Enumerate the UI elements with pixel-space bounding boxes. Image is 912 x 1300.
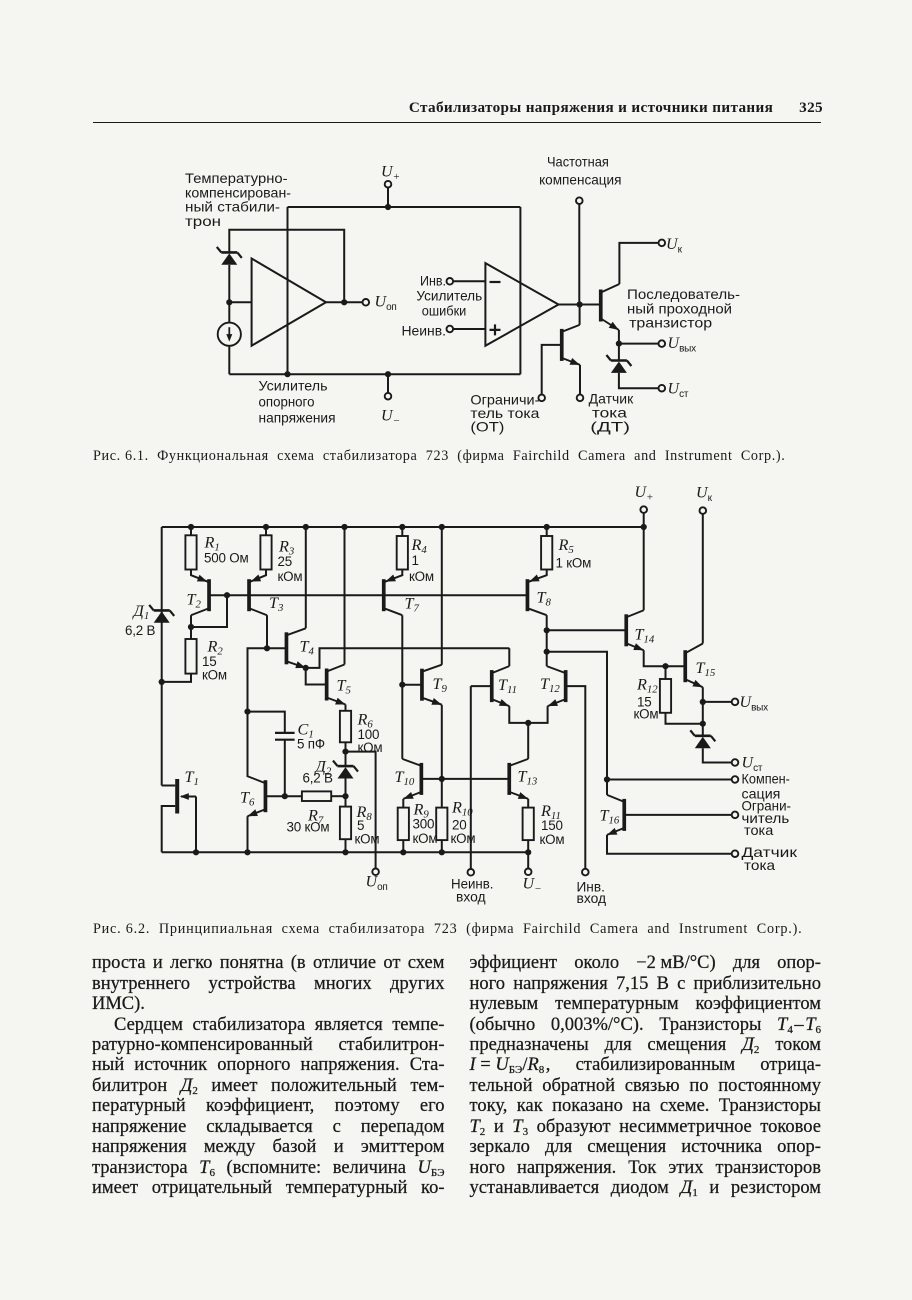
resistor R8 5 kOm: [340, 807, 351, 840]
svg-text:кОм: кОм: [202, 668, 227, 683]
wire zener anode to node A (fig 6.1): [228, 265, 230, 303]
wire node A to ref amp input (fig 6.1): [229, 301, 251, 303]
wire R4 top lead: [401, 527, 403, 536]
terminal Uop: [372, 869, 379, 876]
terminal Uk (fig 6.1): [659, 240, 666, 247]
svg-text:компенсация: компенсация: [539, 172, 621, 187]
resistor R11 150 kOm: [523, 808, 534, 841]
svg-text:T13: T13: [518, 768, 538, 788]
svg-text:кОм: кОм: [540, 832, 565, 847]
svg-text:Последователь-: Последователь-: [627, 287, 740, 302]
wire T16 base to current limit terminal: [624, 814, 731, 816]
wire zener feedback top run (fig 6.1): [229, 230, 344, 302]
node Uout (fig 6.2): [700, 699, 706, 705]
terminal inverting input: [582, 869, 589, 876]
wire node G to T9 base: [402, 684, 422, 686]
node K T8-coll/T14-base: [544, 627, 550, 633]
wire node C to T4 base: [267, 647, 287, 649]
wire OT base lead (fig 6.1): [542, 345, 562, 395]
svg-text:U+: U+: [635, 484, 654, 503]
svg-text:Частотная: Частотная: [547, 154, 609, 169]
wire R8 top lead: [345, 796, 347, 806]
wire Uop branch: [346, 752, 376, 869]
wire T15 collector to Uk: [702, 514, 704, 644]
wire T4 emitter to T11 collector run: [306, 648, 510, 668]
wire series emitter to Uout node (fig 6.1): [618, 330, 620, 344]
node R9 on rail: [400, 849, 406, 855]
capacitor C1 5pF: [275, 733, 295, 740]
wire Uout lead (fig 6.1): [619, 343, 659, 345]
svg-text:R5: R5: [558, 536, 575, 556]
transistor T15: [683, 644, 702, 688]
wire T11 emitter to node J: [509, 706, 528, 723]
wire source of T1 to bottom rail (fig 6.2): [162, 806, 176, 852]
wire C1 top to node C1-junction: [248, 712, 285, 733]
svg-text:30 кОм: 30 кОм: [287, 820, 330, 835]
wire box left edge (fig 6.1): [287, 207, 289, 374]
zener output reference (fig 6.1): [606, 355, 631, 373]
wire T10 emitter to R9: [402, 799, 404, 808]
transistor T6: [248, 776, 268, 816]
transistor T13: [507, 759, 528, 799]
wire node B to base bus: [191, 595, 227, 627]
svg-text:транзистор: транзистор: [629, 316, 712, 331]
wire noninv input (fig 6.1): [453, 328, 485, 330]
wire T12 emitter to node J: [528, 706, 547, 723]
svg-text:T4: T4: [300, 638, 315, 658]
resistor R3 25 kOm: [260, 535, 271, 569]
wire R12 bottom to node P: [666, 713, 703, 724]
node D1 anode / R2 return: [159, 679, 165, 685]
wire T11 collector up: [508, 648, 510, 666]
wire Uout lead: [703, 701, 732, 703]
node R1 top on rail: [188, 524, 194, 530]
plus input mark (fig 6.1): [490, 324, 501, 335]
wire U+ terminal lead (fig 6.1): [387, 188, 389, 207]
wire OT collector (fig 6.1): [579, 305, 581, 325]
node A zener/current-source/amp-input (fig 6.1): [226, 299, 232, 305]
wire T6 base to R7: [266, 795, 302, 797]
wire C1 bottom to node F: [284, 740, 286, 797]
wire zener to Ust (fig 6.1): [619, 373, 659, 388]
transistor T1 (JFET): [162, 779, 196, 814]
wire U- terminal lead (fig 6.1): [387, 374, 389, 393]
transistor T3: [247, 575, 267, 616]
svg-text:Неинв.: Неинв.: [402, 324, 447, 339]
wire compensation lead (fig 6.1): [578, 204, 580, 304]
transistor T16: [607, 795, 626, 835]
wire Uout node to zener (fig 6.1): [618, 344, 620, 361]
svg-text:T8: T8: [537, 589, 552, 609]
wire T3 collector down: [266, 615, 268, 648]
wire current source to bottom rail (fig 6.1): [228, 346, 230, 374]
wire T9 collector to rail: [441, 527, 443, 665]
wire R8 to rail: [345, 839, 347, 852]
terminal U- (fig 6.1): [385, 393, 392, 400]
wire R2 to left rail: [162, 674, 191, 682]
svg-text:T6: T6: [240, 789, 255, 809]
wire R9 to rail: [402, 840, 404, 852]
node B T2-collector/R2: [188, 624, 194, 630]
wire series collector to Uk (fig 6.1): [619, 243, 658, 284]
current source I (fig 6.1): [218, 323, 241, 346]
wire R6 to D2 node: [345, 742, 347, 751]
wire T8 collector down to T12 collector: [546, 615, 548, 666]
svg-text:U+: U+: [381, 164, 400, 183]
transistor T11: [490, 666, 509, 706]
wire base bus T10-T13: [421, 778, 509, 780]
svg-text:25: 25: [278, 554, 293, 569]
resistor R5 1 kOm: [541, 536, 552, 570]
wire D2 top lead: [345, 752, 347, 767]
wire R11 to rail end: [527, 840, 529, 852]
body text right column: [470, 953, 822, 1198]
wire R3 top lead: [265, 527, 267, 535]
transistor T9: [420, 665, 442, 705]
resistor R10 20 kOm: [436, 808, 447, 841]
node Uout (fig 6.1): [616, 341, 622, 347]
svg-text:6,2 В: 6,2 В: [303, 771, 334, 786]
svg-text:Uвых: Uвых: [740, 694, 769, 713]
svg-text:Uк: Uк: [666, 236, 683, 255]
node H T9-emitter/R10/base bus: [439, 776, 445, 782]
resistor R12 15 kOm: [660, 679, 671, 713]
svg-text:Д1: Д1: [132, 602, 150, 622]
wire T5 emitter to R6: [345, 705, 347, 711]
resistor R7 30 kOm: [302, 791, 331, 801]
node D R6/D2/Uop: [342, 749, 348, 755]
node G T7-collector/T9-base/T10-collector: [399, 682, 405, 688]
node R8 on rail: [342, 849, 348, 855]
wire T4 collector to rail: [305, 527, 307, 628]
transistor T7: [382, 575, 402, 616]
caption figure 6.2: [93, 921, 802, 938]
svg-text:кОм: кОм: [634, 707, 659, 722]
wire R3 to T3 emitter: [249, 570, 266, 583]
node P R12/D3: [700, 721, 706, 727]
svg-text:кОм: кОм: [413, 831, 438, 846]
node J T11/T12 emitters / T13 collector: [525, 720, 531, 726]
terminal DT current sense (fig 6.1): [577, 395, 584, 402]
wire T14 collector to U+: [643, 527, 645, 610]
terminal U+ (fig 6.2): [640, 506, 647, 513]
resistor R9 300 kOm: [398, 808, 409, 841]
node C1 top junction: [244, 709, 250, 715]
op-amp error amplifier U1 (fig 6.1): [485, 263, 558, 346]
svg-text:тока: тока: [744, 858, 776, 873]
svg-text:T1: T1: [185, 768, 199, 788]
wire T9 emitter down: [441, 705, 443, 779]
wire base bus T2-T3-T7-T8: [209, 594, 528, 596]
body text left column: [92, 953, 445, 1198]
wire R5 top lead: [546, 527, 548, 536]
node T4 collector on rail: [303, 524, 309, 530]
wire node C to T6 collector line: [248, 648, 268, 777]
node L T8-coll/compensation: [544, 649, 550, 655]
node T5 collector on rail: [341, 524, 347, 530]
svg-text:Усилитель: Усилитель: [259, 379, 328, 394]
svg-text:(ОТ): (ОТ): [470, 420, 504, 435]
wire left rail with D1 (fig 6.2): [161, 527, 163, 786]
terminal Ust (fig 6.1): [659, 385, 666, 392]
svg-text:Компен-: Компен-: [742, 772, 790, 787]
node base bus junction: [224, 592, 230, 598]
svg-text:вход: вход: [456, 890, 486, 905]
svg-text:ошибки: ошибки: [422, 304, 467, 319]
node T6 emitter on rail: [244, 849, 250, 855]
svg-text:Усилитель: Усилитель: [416, 289, 482, 304]
svg-text:Uоп: Uоп: [375, 294, 397, 313]
wire box right edge (fig 6.1): [519, 207, 521, 374]
svg-text:1: 1: [412, 553, 419, 568]
terminal OT current limit (fig 6.1): [538, 395, 545, 402]
svg-text:Температурно-: Температурно-: [185, 171, 288, 186]
svg-text:5 пФ: 5 пФ: [297, 737, 325, 752]
svg-text:U−: U−: [381, 408, 400, 427]
wire R1 top lead: [190, 527, 192, 535]
svg-text:тока: тока: [744, 823, 774, 838]
wire R7 to node E: [331, 795, 345, 797]
wire V+ top rail / box top edge (fig 6.1): [288, 206, 521, 208]
svg-text:напряжения: напряжения: [259, 411, 336, 426]
node T1 gate / V- rail: [193, 849, 199, 855]
svg-text:T14: T14: [635, 626, 655, 646]
wire inv input (fig 6.1): [453, 280, 485, 282]
wire V+ top rail (fig 6.2): [162, 526, 644, 528]
wire R10 to rail: [441, 840, 443, 852]
svg-text:150: 150: [541, 818, 563, 833]
node T4 emitter: [303, 665, 309, 671]
svg-text:Uст: Uст: [668, 381, 689, 400]
svg-text:T7: T7: [405, 595, 420, 615]
terminal current sense: [732, 850, 739, 857]
svg-text:300: 300: [413, 817, 435, 832]
wire T14 emitter to T15 base: [644, 650, 686, 666]
svg-text:кОм: кОм: [358, 740, 383, 755]
svg-text:R12: R12: [636, 676, 658, 696]
wire T1 drain: [162, 785, 176, 787]
terminal inverting input (fig 6.1): [447, 278, 454, 285]
zener D1 6.2V: [149, 605, 174, 623]
wire node K to T14 base: [547, 629, 627, 631]
terminal Uout (fig 6.1): [659, 340, 666, 347]
wire T1 gate to rail: [195, 797, 197, 853]
wire non-inverting input: [470, 686, 472, 869]
wire D3 to Ust: [703, 748, 732, 762]
wire compensation to terminal: [607, 779, 732, 781]
terminal frequency compensation (fig 6.1): [576, 197, 583, 204]
svg-text:кОм: кОм: [409, 569, 434, 584]
svg-text:T10: T10: [395, 768, 415, 788]
svg-text:компенсирован-: компенсирован-: [185, 185, 291, 200]
svg-text:Инв.: Инв.: [420, 273, 446, 288]
node ref amp output / feedback (fig 6.1): [341, 299, 347, 305]
transistor T10: [402, 759, 423, 799]
node U- on bottom rail (fig 6.1): [385, 371, 391, 377]
resistor R4 1 kOm: [397, 536, 408, 570]
node R10 on rail: [439, 849, 445, 855]
resistor R1 500 Om: [185, 535, 196, 569]
svg-text:ный стабили-: ный стабили-: [185, 200, 280, 215]
terminal Ust (fig 6.2): [732, 759, 739, 766]
wire R4 to T7 emitter: [384, 570, 403, 583]
transistor T14: [624, 610, 643, 650]
wire D3 top lead: [702, 724, 704, 736]
zener temp-compensated stabilitron (fig 6.1): [217, 247, 242, 265]
zener D3 output reference: [690, 730, 715, 748]
wire node A to current source (fig 6.1): [228, 302, 230, 322]
wire T2 collector to node B: [190, 615, 192, 627]
node C T3-collector/T4-base/T6-collector: [264, 645, 270, 651]
terminal non-inverting input (fig 6.1): [447, 326, 454, 333]
wire U- lead: [527, 852, 529, 868]
node T9 collector on rail: [439, 524, 445, 530]
terminal current limiter: [732, 812, 739, 819]
svg-text:кОм: кОм: [278, 569, 303, 584]
terminal Uout (fig 6.2): [732, 699, 739, 706]
wire T12 base to inverting input: [566, 686, 586, 869]
wire R2 top lead: [190, 627, 192, 639]
wire node G to T10 collector: [401, 685, 403, 759]
node R11 / U- junction: [525, 849, 531, 855]
transistor T2: [191, 575, 211, 616]
svg-text:T15: T15: [696, 659, 716, 679]
wire R12 top lead: [665, 666, 667, 679]
wire T15 emitter down: [702, 687, 704, 702]
svg-text:T16: T16: [600, 807, 620, 827]
svg-text:трон: трон: [185, 214, 221, 229]
terminal U-: [525, 869, 532, 876]
svg-text:Uвых: Uвых: [668, 335, 697, 354]
svg-text:T9: T9: [433, 675, 448, 695]
svg-text:500 Ом: 500 Ом: [204, 551, 248, 566]
svg-text:Uст: Uст: [742, 755, 763, 774]
wire T6 emitter to rail: [247, 816, 249, 852]
caption figure 6.1: [93, 448, 785, 465]
terminal compensation: [732, 776, 739, 783]
zener D2 6.2V: [333, 761, 358, 779]
wire T5 collector to rail: [344, 527, 346, 665]
svg-text:Uк: Uк: [696, 485, 713, 504]
transistor series pass (fig 6.1): [599, 284, 620, 330]
resistor R6 100 kOm: [340, 711, 351, 743]
wire T11 base: [471, 685, 492, 687]
page header running title: [93, 99, 823, 117]
node R3 top on rail: [263, 524, 269, 530]
terminal Uk (fig 6.2): [700, 507, 707, 514]
transistor T4: [285, 628, 306, 668]
svg-text:T3: T3: [269, 594, 284, 614]
svg-text:1 кОм: 1 кОм: [556, 556, 592, 571]
svg-text:Uоп: Uоп: [366, 874, 388, 893]
wire T1 gate: [181, 796, 196, 798]
transistor current limiter OT (fig 6.1): [560, 325, 580, 365]
wire U+ lead: [643, 513, 645, 527]
minus input mark (fig 6.1): [490, 281, 501, 283]
svg-text:T2: T2: [187, 591, 202, 611]
svg-text:опорного: опорного: [259, 395, 315, 410]
wire R10 top lead: [441, 779, 443, 808]
wire R5 to T8 emitter: [528, 570, 547, 583]
wire DT emitter lead (fig 6.1): [579, 365, 581, 395]
wire node L to compensation line: [547, 652, 607, 795]
transistor T5: [325, 665, 346, 705]
node error amp output / compensation (fig 6.1): [577, 301, 583, 307]
node box-left-edge / bottom rail junction (fig 6.1): [284, 371, 290, 377]
svg-text:вход: вход: [577, 891, 607, 906]
node M compensation tap: [604, 776, 610, 782]
wire D2 to node E: [345, 779, 347, 797]
svg-text:T12: T12: [540, 675, 560, 695]
node R4 top on rail: [399, 524, 405, 530]
wire R1 to T2 emitter: [191, 570, 209, 583]
svg-text:U−: U−: [523, 876, 542, 895]
wire T7 collector down: [401, 615, 403, 685]
wire ref amp output (fig 6.1): [326, 301, 362, 303]
terminal U_op (fig 6.1): [363, 299, 370, 306]
resistor R2 15 kOm: [185, 639, 196, 674]
node F C1/T6-base/R7: [282, 793, 288, 799]
node U+ on rail (fig 6.1): [385, 204, 391, 210]
svg-text:T5: T5: [337, 677, 352, 697]
wire T16 emitter to current sense: [607, 835, 732, 854]
svg-text:ный проходной: ный проходной: [627, 302, 732, 317]
node U+ on rail (fig 6.2): [641, 524, 647, 530]
wire V- bottom rail (fig 6.2): [162, 851, 529, 853]
terminal non-inverting input: [468, 869, 475, 876]
node E D2/R7/R8: [342, 793, 348, 799]
wire Uout node to node P: [702, 702, 704, 724]
svg-text:тока: тока: [592, 405, 628, 420]
svg-text:кОм: кОм: [355, 832, 380, 847]
node R5 top on rail: [544, 524, 550, 530]
wire T4 emitter to T5 base: [306, 668, 327, 685]
node N T14-emitter/R12: [662, 663, 668, 669]
svg-text:T11: T11: [498, 676, 517, 696]
transistor T8: [526, 575, 547, 616]
wire error amp output (fig 6.1): [559, 304, 601, 306]
header rule: [93, 122, 821, 124]
svg-text:6,2 В: 6,2 В: [125, 623, 156, 638]
terminal U+ (fig 6.1): [385, 181, 392, 188]
svg-text:(ДТ): (ДТ): [590, 420, 630, 435]
wire T13 emitter to R11: [527, 799, 529, 808]
transistor T12: [547, 666, 568, 706]
wire T13 collector to node J: [527, 723, 529, 759]
wire box bottom edge / V- rail (fig 6.1): [229, 373, 520, 375]
op-amp reference amplifier (fig 6.1): [252, 259, 326, 346]
